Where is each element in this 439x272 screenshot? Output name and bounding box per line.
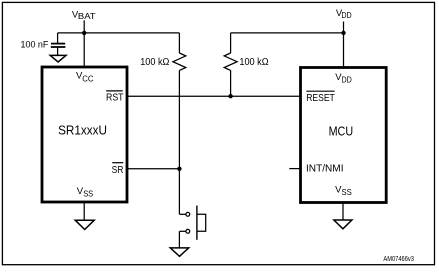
svg-text:RST: RST [106, 92, 124, 104]
wire VDD to MCU [343, 33, 345, 68]
svg-text:DD: DD [341, 10, 351, 20]
node VBAT junction [82, 31, 86, 35]
svg-text:RESET: RESET [306, 92, 335, 104]
wire switch to ground [178, 231, 180, 248]
pin label RST [106, 90, 123, 92]
svg-text:SR1xxxU: SR1xxxU [58, 123, 107, 138]
svg-text:CC: CC [82, 73, 93, 83]
wire VSS to ground (MCU) [342, 203, 344, 221]
net label VDD [336, 8, 352, 20]
pin label SR [112, 162, 123, 164]
wire VBAT rail [58, 32, 180, 34]
pin label VSS [77, 186, 94, 199]
wire capacitor to ground [57, 48, 59, 56]
pin label RESET [306, 90, 334, 92]
IC MCU [301, 68, 387, 203]
wire VDD rail [231, 32, 344, 34]
capacitor 100 nF [51, 43, 65, 45]
svg-text:100 kΩ: 100 kΩ [239, 56, 268, 68]
ground [75, 220, 94, 229]
wire capacitor branch [57, 33, 59, 43]
node RESET junction [228, 94, 232, 98]
net label VBAT [72, 9, 96, 21]
resistor R2 100 kOhm [224, 53, 237, 70]
svg-text:BAT: BAT [78, 11, 96, 21]
svg-text:SS: SS [83, 189, 93, 199]
wire VBAT stub [83, 20, 85, 33]
IC SR1xxxU [42, 67, 127, 202]
ground [334, 220, 352, 229]
svg-text:AM07466v3: AM07466v3 [383, 256, 414, 263]
svg-text:100 nF: 100 nF [21, 39, 49, 49]
pin label VDD (MCU) [335, 72, 352, 84]
wire RST net [127, 95, 301, 97]
push-button switch [179, 206, 205, 240]
svg-text:SS: SS [342, 187, 353, 197]
wire INT/NMI stub [289, 168, 300, 170]
node SR junction [177, 167, 181, 171]
svg-text:DD: DD [342, 74, 352, 84]
wire VDD stub [343, 22, 345, 33]
wire SR net [127, 168, 179, 170]
wire R1 bottom [178, 70, 180, 168]
pin label VSS (MCU) [335, 185, 352, 198]
ground [50, 55, 66, 62]
wire VSS to ground (SR1xxxU) [83, 202, 85, 220]
svg-text:SR: SR [112, 164, 124, 176]
svg-text:MCU: MCU [329, 123, 354, 138]
svg-text:100 kΩ: 100 kΩ [140, 56, 169, 68]
ground [170, 248, 188, 256]
wire R2 bottom [230, 70, 232, 96]
wire to push-button [178, 169, 180, 215]
wire R2 top [230, 33, 232, 53]
wire VCC stub [83, 33, 85, 67]
node VDD junction [341, 31, 345, 35]
svg-text:INT/NMI: INT/NMI [306, 163, 344, 175]
resistor R1 100 kOhm [173, 53, 186, 70]
pin label VCC [76, 70, 94, 83]
wire R1 top [178, 33, 180, 53]
